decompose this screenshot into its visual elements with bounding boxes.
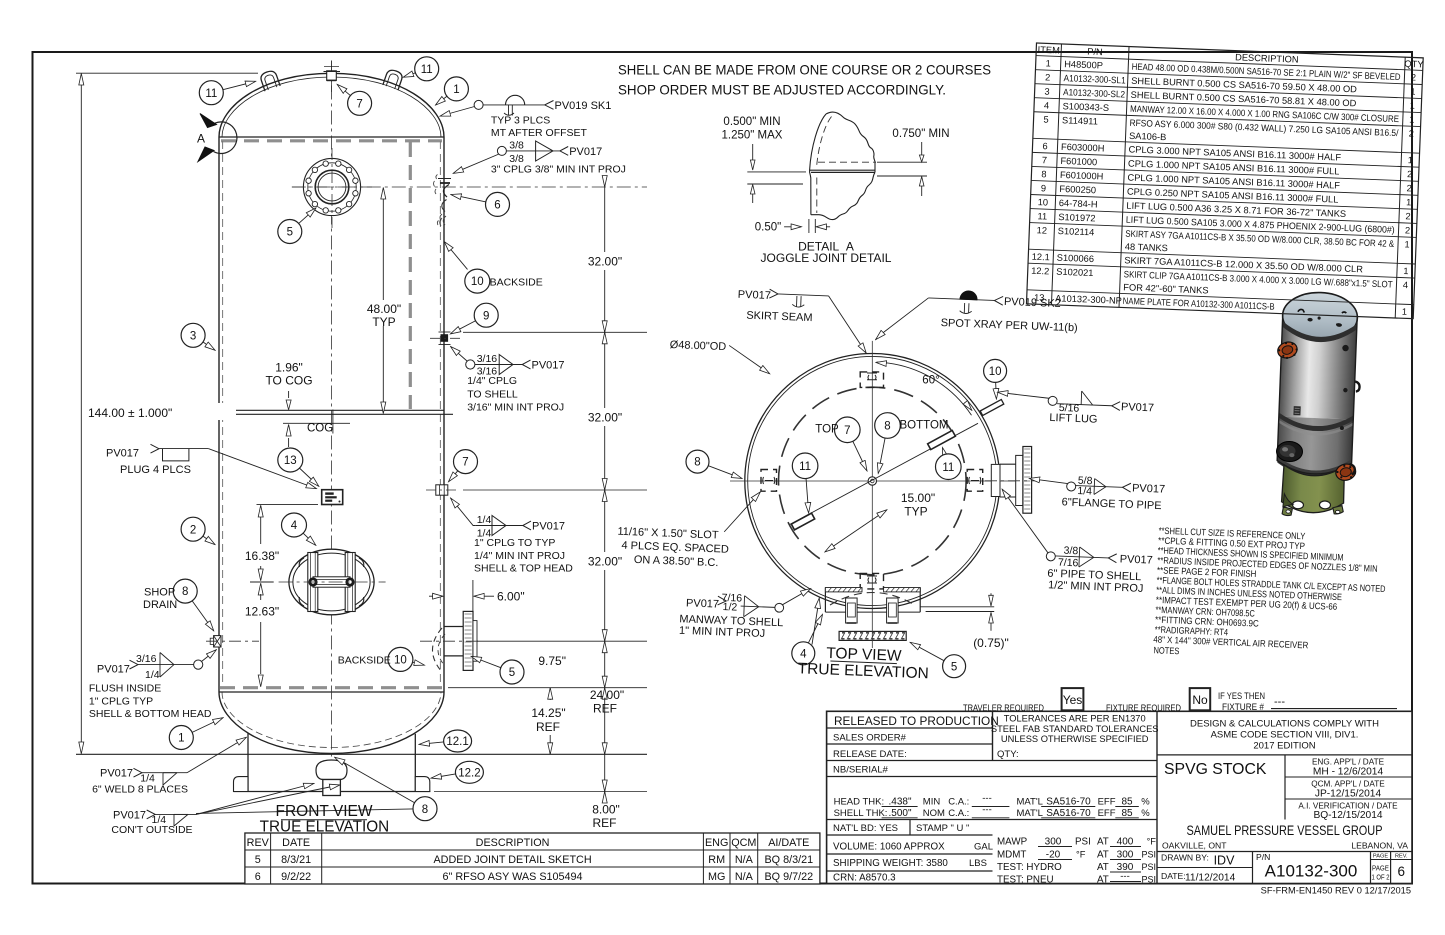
svg-text:DATE:: DATE: xyxy=(1161,871,1186,881)
svg-text:S100066: S100066 xyxy=(1057,253,1095,264)
balloon 8 xyxy=(173,579,197,603)
spot xray PV019 SK2 xyxy=(875,287,1078,347)
svg-text:1: 1 xyxy=(1406,197,1412,207)
svg-text:REV.: REV. xyxy=(1395,853,1408,859)
svg-text:SHELL THK:: SHELL THK: xyxy=(834,808,888,819)
svg-text:STAMP " U ": STAMP " U " xyxy=(916,823,969,834)
svg-text:BACKSIDE: BACKSIDE xyxy=(490,276,543,288)
balloon 1 leader xyxy=(436,96,447,105)
svg-text:MT AFTER OFFSET: MT AFTER OFFSET xyxy=(491,127,588,139)
balloon 12.1 xyxy=(444,730,472,752)
svg-text:1: 1 xyxy=(1407,155,1413,165)
svg-text:1/4" CPLG: 1/4" CPLG xyxy=(467,375,517,387)
svg-text:1.250" MAX: 1.250" MAX xyxy=(722,130,783,142)
svg-text:°F: °F xyxy=(1147,837,1157,847)
svg-text:8.00": 8.00" xyxy=(592,803,620,817)
svg-text:C.A.:: C.A.: xyxy=(948,808,969,819)
skirt clip right 12.2 xyxy=(415,777,430,792)
svg-text:STEEL FAB STANDARD TOLERANCES: STEEL FAB STANDARD TOLERANCES xyxy=(991,724,1159,734)
svg-text:SHOP: SHOP xyxy=(144,587,175,599)
svg-text:ADDED JOINT DETAIL SKETCH: ADDED JOINT DETAIL SKETCH xyxy=(433,854,591,866)
svg-text:MIN: MIN xyxy=(923,797,941,808)
manway flange item5 front xyxy=(292,148,372,228)
manway item4 xyxy=(279,549,386,615)
manway black oval xyxy=(1276,441,1303,462)
weld pipe to shell xyxy=(998,490,1155,596)
svg-text:4: 4 xyxy=(291,520,298,532)
svg-text:S114911: S114911 xyxy=(1062,115,1098,126)
balloon 10 xyxy=(465,269,490,293)
svg-text:S100343-S: S100343-S xyxy=(1062,101,1109,113)
svg-text:144.00 ± 1.000": 144.00 ± 1.000" xyxy=(88,406,172,420)
svg-text:0.750" MIN: 0.750" MIN xyxy=(892,128,949,140)
svg-text:85: 85 xyxy=(1121,808,1133,819)
dimension 16.38 / 12.63 xyxy=(245,504,318,686)
svg-text:(0.75)": (0.75)" xyxy=(973,636,1009,650)
vessel centerline xyxy=(331,61,333,795)
svg-text:13: 13 xyxy=(284,455,297,467)
balloon 10 leader xyxy=(413,662,424,665)
skirt cutouts xyxy=(1292,501,1303,509)
svg-text:HEAD THK:: HEAD THK: xyxy=(834,797,885,808)
svg-text:TOP: TOP xyxy=(815,423,839,435)
svg-text:2: 2 xyxy=(190,524,196,536)
balloon 7 xyxy=(454,450,478,474)
balloon 4 second leader xyxy=(812,599,819,645)
svg-text:1: 1 xyxy=(1410,100,1416,110)
lift lug bar lower left xyxy=(791,513,814,530)
svg-text:12.63": 12.63" xyxy=(245,605,279,619)
svg-text:2: 2 xyxy=(1409,129,1415,139)
svg-text:1: 1 xyxy=(1410,86,1416,96)
svg-text:11: 11 xyxy=(942,462,954,474)
svg-text:300: 300 xyxy=(1045,837,1062,848)
weld symbol 6in weld 8 places xyxy=(92,738,246,796)
svg-text:8/3/21: 8/3/21 xyxy=(281,854,311,866)
balloon 8 leader xyxy=(335,758,415,803)
svg-text:N/A: N/A xyxy=(735,854,754,866)
svg-text:---: --- xyxy=(1120,871,1130,882)
svg-text:SA516-70: SA516-70 xyxy=(1046,797,1091,808)
svg-text:7: 7 xyxy=(356,98,362,110)
svg-text:CON'T OUTSIDE: CON'T OUTSIDE xyxy=(111,824,192,836)
detail A joggle joint blob xyxy=(810,112,876,220)
svg-text:BQ-12/15/2014: BQ-12/15/2014 xyxy=(1313,810,1382,821)
COG marker xyxy=(283,410,350,435)
svg-text:11: 11 xyxy=(1037,211,1047,221)
svg-text:TO COG: TO COG xyxy=(265,374,312,388)
weld flange to pipe xyxy=(1029,473,1166,512)
svg-text:3/16: 3/16 xyxy=(136,653,157,665)
svg-text:8: 8 xyxy=(694,457,700,469)
svg-text:10: 10 xyxy=(989,366,1002,378)
svg-text:SALES ORDER#: SALES ORDER# xyxy=(833,733,907,744)
svg-text:PSI: PSI xyxy=(1141,875,1156,885)
svg-text:DATE: DATE xyxy=(282,837,310,849)
svg-text:---: --- xyxy=(1274,696,1285,708)
svg-text:1: 1 xyxy=(1404,239,1410,249)
svg-text:A10132-300: A10132-300 xyxy=(1265,862,1358,881)
svg-text:2017 EDITION: 2017 EDITION xyxy=(1253,741,1315,752)
fitting item6 3in cplg xyxy=(434,175,452,226)
svg-text:3/8: 3/8 xyxy=(509,139,524,151)
joggle joint lines xyxy=(810,169,875,171)
svg-text:BACKSIDE: BACKSIDE xyxy=(338,654,391,666)
svg-text:8: 8 xyxy=(1041,169,1047,179)
svg-text:PV017: PV017 xyxy=(106,448,139,460)
svg-text:PAGE: PAGE xyxy=(1372,864,1389,873)
bottom head inner dashed xyxy=(222,692,441,748)
balloon 1 xyxy=(169,726,193,750)
top head inner xyxy=(222,77,441,137)
svg-text:JP-12/15/2014: JP-12/15/2014 xyxy=(1315,789,1382,800)
svg-text:1.96": 1.96" xyxy=(275,361,303,375)
svg-text:%: % xyxy=(1141,797,1150,808)
svg-text:AI/DATE: AI/DATE xyxy=(768,837,809,849)
svg-text:CRN: A8570.3: CRN: A8570.3 xyxy=(833,873,896,884)
svg-text:-20: -20 xyxy=(1046,850,1061,861)
svg-text:F601000: F601000 xyxy=(1060,156,1097,167)
svg-text:4: 4 xyxy=(1403,280,1409,290)
lift lug bar upper right xyxy=(928,430,956,449)
svg-text:48 TANKS: 48 TANKS xyxy=(1125,242,1168,254)
skirt green xyxy=(1281,464,1345,514)
svg-text:8: 8 xyxy=(884,421,890,433)
top view balloon 11 xyxy=(936,454,962,480)
skirt clip left 12.2 xyxy=(234,777,249,792)
svg-text:6: 6 xyxy=(494,200,500,212)
svg-text:400: 400 xyxy=(1117,837,1134,848)
svg-text:2: 2 xyxy=(1411,72,1417,82)
svg-text:RM: RM xyxy=(708,854,725,866)
svg-text:S102114: S102114 xyxy=(1058,226,1095,237)
svg-text:5: 5 xyxy=(509,667,515,679)
svg-text:MAT'L: MAT'L xyxy=(1017,797,1043,808)
svg-text:LEBANON, VA: LEBANON, VA xyxy=(1351,841,1408,851)
tank body lower shell xyxy=(1277,417,1354,476)
shop drain fitting item8 xyxy=(206,636,259,647)
dim 0.75 xyxy=(920,593,1009,650)
top view fitting left xyxy=(761,470,777,492)
flange upper left orange xyxy=(1276,339,1300,360)
backside arcs of nozzle xyxy=(433,628,443,672)
svg-text:3" CPLG 3/8" MIN INT PROJ: 3" CPLG 3/8" MIN INT PROJ xyxy=(491,163,626,175)
svg-text:1: 1 xyxy=(178,733,184,745)
balloon 11 leader xyxy=(404,73,416,77)
svg-text:4: 4 xyxy=(1044,100,1050,110)
svg-text:REF: REF xyxy=(593,702,617,716)
svg-text:NOM: NOM xyxy=(923,808,945,819)
fitting item9 quarter cplg xyxy=(430,332,460,345)
svg-text:F600250: F600250 xyxy=(1059,184,1096,195)
skirt base line xyxy=(234,791,431,793)
svg-text:IDV: IDV xyxy=(1214,854,1236,868)
svg-text:1/4: 1/4 xyxy=(1077,485,1092,498)
svg-text:RELEASE DATE:: RELEASE DATE: xyxy=(833,749,907,760)
svg-text:QTY: QTY xyxy=(1404,59,1423,70)
backside fitting item10 upper xyxy=(440,216,446,226)
svg-text:1/4: 1/4 xyxy=(477,514,492,526)
weld symbol fitting9 xyxy=(451,347,565,414)
svg-text:---: --- xyxy=(982,793,992,804)
svg-text:PV017: PV017 xyxy=(686,597,719,610)
label plug 4 plcs xyxy=(106,444,316,488)
mid circumferential seam xyxy=(219,409,444,411)
svg-text:DRAIN: DRAIN xyxy=(143,599,177,611)
svg-text:14.25": 14.25" xyxy=(531,706,565,720)
top fitting item7 xyxy=(324,61,341,93)
svg-text:SHIPPING WEIGHT: 3580: SHIPPING WEIGHT: 3580 xyxy=(833,858,948,869)
top tangent line xyxy=(219,136,444,138)
vessel shell sides xyxy=(218,137,220,692)
balloon 11 leader xyxy=(223,81,255,89)
svg-text:C.A.:: C.A.: xyxy=(948,797,969,808)
svg-text:AT: AT xyxy=(1097,862,1109,873)
svg-text:DESIGN & CALCULATIONS COMPLY W: DESIGN & CALCULATIONS COMPLY WITH xyxy=(1190,719,1379,730)
svg-text:12.1: 12.1 xyxy=(1032,252,1050,263)
lug axis diagonal xyxy=(790,423,978,524)
svg-text:A: A xyxy=(197,132,205,146)
svg-text:F603000H: F603000H xyxy=(1061,142,1105,154)
lift lug right item11 xyxy=(383,68,404,90)
svg-text:32.00": 32.00" xyxy=(588,255,622,269)
svg-text:6: 6 xyxy=(255,871,261,883)
body outline xyxy=(1277,315,1358,476)
balloon 4 xyxy=(282,513,307,537)
balloon 5 xyxy=(278,220,302,244)
svg-text:MAT'L: MAT'L xyxy=(1017,808,1043,819)
balloon 12.2 xyxy=(455,761,483,783)
top view balloon 8 xyxy=(686,450,709,473)
svg-text:9: 9 xyxy=(483,310,489,322)
svg-text:6: 6 xyxy=(1398,864,1406,879)
balloon 9 leader xyxy=(451,321,476,334)
svg-text:.438": .438" xyxy=(888,797,911,808)
svg-text:5: 5 xyxy=(287,227,293,239)
svg-text:DRAWN BY:: DRAWN BY: xyxy=(1161,853,1209,863)
svg-text:10: 10 xyxy=(471,276,484,288)
lift lug left item11 xyxy=(259,69,280,91)
svg-text:SAMUEL PRESSURE VESSEL GROUP: SAMUEL PRESSURE VESSEL GROUP xyxy=(1187,823,1383,838)
svg-text:EFF: EFF xyxy=(1098,797,1116,808)
backside lug upper right outside xyxy=(980,399,1004,415)
side lift lug xyxy=(1355,381,1360,391)
svg-text:PV017: PV017 xyxy=(1121,401,1154,414)
inner wall dashed right xyxy=(439,141,441,687)
svg-text:TYP: TYP xyxy=(904,505,927,519)
svg-text:PV019 SK2: PV019 SK2 xyxy=(1004,296,1061,310)
svg-text:MH - 12/6/2014: MH - 12/6/2014 xyxy=(1313,767,1384,778)
top view balloon 5 leader xyxy=(911,643,944,661)
svg-text:64-784-H: 64-784-H xyxy=(1059,198,1098,209)
svg-text:60°: 60° xyxy=(922,375,939,387)
balloon 10 xyxy=(388,647,413,671)
svg-text:TO SHELL: TO SHELL xyxy=(467,389,518,401)
bottom tangent line xyxy=(219,691,444,693)
svg-text:PV017: PV017 xyxy=(113,809,146,821)
spot xray PV019 SK1 xyxy=(441,95,612,139)
svg-text:13: 13 xyxy=(1034,292,1045,302)
svg-text:°F: °F xyxy=(1076,850,1086,860)
balloon 1 leader xyxy=(192,718,223,732)
svg-text:48.00": 48.00" xyxy=(367,302,401,316)
balloon 7 xyxy=(348,91,372,115)
svg-text:11: 11 xyxy=(421,64,433,76)
nozzle item5 6in rfso xyxy=(420,611,480,672)
top view nozzle item5 xyxy=(985,447,1040,514)
svg-text:JOGGLE JOINT DETAIL: JOGGLE JOINT DETAIL xyxy=(761,251,892,265)
svg-text:9/2/22: 9/2/22 xyxy=(281,871,311,883)
svg-text:BOTTOM: BOTTOM xyxy=(900,419,949,431)
svg-text:GAL: GAL xyxy=(974,842,993,853)
weld symbol fitting7 xyxy=(450,498,573,575)
svg-text:1/4" MIN INT PROJ: 1/4" MIN INT PROJ xyxy=(474,550,565,562)
svg-text:1" CPLG TO TYP: 1" CPLG TO TYP xyxy=(474,537,555,549)
svg-text:PSI: PSI xyxy=(1075,837,1091,848)
svg-text:MG: MG xyxy=(708,871,725,883)
slot dim 15.00 xyxy=(856,510,887,531)
top view manway projection xyxy=(825,588,920,649)
top view balloon 10 leader xyxy=(995,382,998,398)
svg-text:ITEM: ITEM xyxy=(1037,45,1060,56)
top view fitting top xyxy=(860,372,883,388)
mid weld band xyxy=(1278,413,1353,433)
svg-text:300: 300 xyxy=(1117,850,1134,861)
svg-text:FLUSH INSIDE: FLUSH INSIDE xyxy=(89,683,161,695)
weld symbol cont outside xyxy=(111,784,412,836)
svg-text:SHELL & TOP HEAD: SHELL & TOP HEAD xyxy=(474,563,573,575)
svg-text:8: 8 xyxy=(182,586,188,598)
svg-text:1 OF 2: 1 OF 2 xyxy=(1372,873,1390,882)
top view balloon 7 leader xyxy=(853,441,867,470)
top view balloon 8 leader xyxy=(878,438,885,473)
dimension 1.96 TO COG xyxy=(265,361,312,448)
traveler fixture row xyxy=(963,688,1397,714)
svg-text:PLUG 4 PLCS: PLUG 4 PLCS xyxy=(120,464,191,476)
balloon 2 leader xyxy=(203,536,215,544)
svg-text:3: 3 xyxy=(190,330,196,342)
svg-text:ASME CODE SECTION VIII, DIV1.: ASME CODE SECTION VIII, DIV1. xyxy=(1211,730,1359,741)
60 deg arc xyxy=(877,362,972,415)
balloon 6 xyxy=(486,192,510,216)
title block xyxy=(827,711,1412,885)
weld manway to shell xyxy=(679,584,811,642)
svg-text:H48500P: H48500P xyxy=(1064,59,1103,70)
balloon 13 leader xyxy=(299,468,318,486)
grey long-seam vertical dashed xyxy=(409,142,412,409)
svg-text:PV017: PV017 xyxy=(532,359,565,371)
name plate item13 xyxy=(322,490,343,505)
svg-text:SA106-B: SA106-B xyxy=(1129,131,1167,142)
balloon 5 xyxy=(500,660,524,684)
svg-text:7: 7 xyxy=(1042,155,1048,165)
svg-text:TYP 3 PLCS: TYP 3 PLCS xyxy=(491,114,550,126)
svg-text:2: 2 xyxy=(1045,72,1051,82)
detail A dims xyxy=(722,116,950,265)
balloon 7 leader xyxy=(338,85,351,96)
svg-text:15.00": 15.00" xyxy=(901,491,935,505)
svg-text:16.38": 16.38" xyxy=(245,549,279,563)
svg-text:TEST: PNEU: TEST: PNEU xyxy=(997,875,1054,886)
top view outer shell circles xyxy=(730,341,1021,611)
svg-text:SHELL & BOTTOM HEAD: SHELL & BOTTOM HEAD xyxy=(89,708,212,720)
top head xyxy=(1282,291,1359,342)
svg-text:12.2: 12.2 xyxy=(1031,266,1049,277)
svg-text:REF: REF xyxy=(536,720,560,734)
balloon 9 xyxy=(474,303,498,327)
svg-text:PSI: PSI xyxy=(1141,862,1156,872)
dimension stack 32.00 x3, 9.75, 24.00 REF, 8.00 REF xyxy=(292,176,647,831)
svg-text:3/16: 3/16 xyxy=(477,353,498,365)
svg-text:PV017: PV017 xyxy=(1120,553,1153,566)
balloon 10 leader xyxy=(445,242,468,269)
svg-text:3/8: 3/8 xyxy=(1063,545,1078,558)
svg-text:PV017: PV017 xyxy=(532,520,565,532)
svg-text:UNLESS OTHERWISE SPECIFIED: UNLESS OTHERWISE SPECIFIED xyxy=(1001,734,1149,744)
svg-text:P/N: P/N xyxy=(1256,852,1270,862)
flange lower right orange xyxy=(1334,462,1357,482)
svg-text:PV017: PV017 xyxy=(738,289,771,302)
lower shell curve top highlight xyxy=(1278,420,1353,437)
svg-text:COG: COG xyxy=(307,423,333,435)
balloon 7 leader xyxy=(449,471,458,482)
svg-text:RELEASED TO PRODUCTION: RELEASED TO PRODUCTION xyxy=(834,714,999,728)
svg-text:S101972: S101972 xyxy=(1058,212,1096,223)
svg-text:PV017: PV017 xyxy=(97,664,130,676)
top view fitting right xyxy=(967,470,983,492)
svg-text:1/2: 1/2 xyxy=(722,601,737,614)
svg-text:AT: AT xyxy=(1097,837,1109,848)
svg-text:AT: AT xyxy=(1097,850,1109,861)
svg-text:7: 7 xyxy=(844,425,850,437)
slot label xyxy=(616,487,760,571)
svg-text:PV017: PV017 xyxy=(569,146,602,158)
balloon 5 leader xyxy=(299,208,316,223)
svg-text:MDMT: MDMT xyxy=(997,850,1026,861)
skirt feet xyxy=(1282,507,1292,516)
balloon 12.2 leader xyxy=(432,774,456,778)
svg-text:P/N: P/N xyxy=(1087,47,1103,58)
svg-text:4: 4 xyxy=(800,648,807,660)
svg-text:LBS: LBS xyxy=(969,858,987,869)
svg-text:SKIRT SEAM: SKIRT SEAM xyxy=(746,310,813,325)
balloon 5 leader xyxy=(472,657,501,668)
fitting item7 right xyxy=(426,485,459,495)
weld lift lug xyxy=(997,388,1155,428)
svg-text:85: 85 xyxy=(1121,797,1133,808)
balloon 4 leader xyxy=(303,533,315,545)
svg-text:Yes: Yes xyxy=(1063,693,1083,707)
svg-text:10: 10 xyxy=(394,655,407,667)
bottom head outer xyxy=(219,692,444,754)
balloon 1 xyxy=(444,77,468,101)
top view balloon 7 xyxy=(835,417,861,443)
balloon 12.1 leader xyxy=(420,742,444,744)
svg-text:S102021: S102021 xyxy=(1056,267,1094,278)
svg-text:EFF: EFF xyxy=(1098,808,1116,819)
ground line xyxy=(76,753,647,755)
balloon 11 xyxy=(199,81,223,105)
svg-text:PV019 SK1: PV019 SK1 xyxy=(555,100,612,112)
top view centerlines xyxy=(871,341,873,611)
svg-text:2: 2 xyxy=(1406,183,1412,193)
svg-text:SHELL CAN BE MADE FROM ONE COU: SHELL CAN BE MADE FROM ONE COURSE OR 2 C… xyxy=(618,62,991,78)
svg-text:5: 5 xyxy=(1043,115,1049,125)
svg-text:2: 2 xyxy=(1407,169,1413,179)
svg-text:%: % xyxy=(1141,808,1150,819)
svg-text:1: 1 xyxy=(1402,307,1408,317)
svg-text:NB/SERIAL#: NB/SERIAL# xyxy=(833,765,889,776)
